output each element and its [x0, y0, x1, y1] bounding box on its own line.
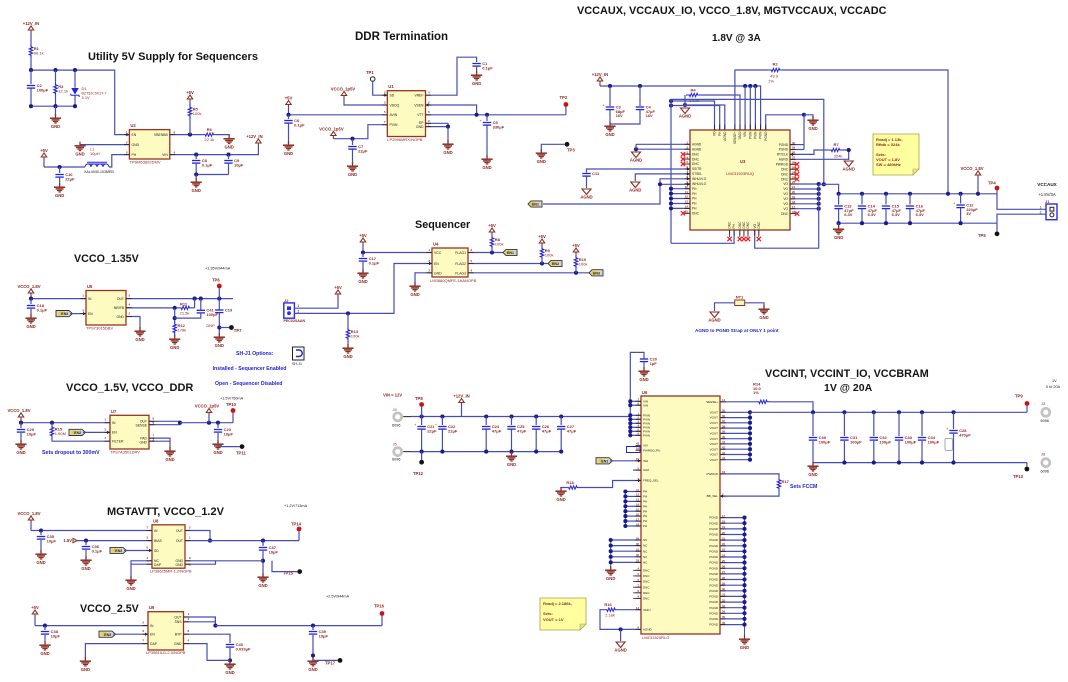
- section title MGTAVTT, VCCO_1.2V: [107, 506, 225, 518]
- no-connect stub U3 right row 5: [790, 168, 796, 170]
- junction: [420, 450, 424, 454]
- junction: [837, 192, 841, 196]
- svg-text:TP10: TP10: [226, 402, 237, 407]
- svg-text:SD: SD: [390, 94, 395, 98]
- wire: [189, 119, 191, 135]
- wire 1V output rail: [750, 411, 1027, 413]
- no-connect X: [681, 162, 685, 166]
- wire to C28: [953, 412, 955, 429]
- wire PH pin: [625, 510, 641, 512]
- svg-text:NT1: NT1: [736, 295, 744, 300]
- wire C33 down: [898, 441, 900, 463]
- wire R4 to VADJ: [701, 95, 740, 130]
- wire R6 to gnd: [216, 135, 229, 138]
- svg-text:VCCAUX, VCCAUX_IO, VCCO_1.8V,: VCCAUX, VCCAUX_IO, VCCO_1.8V, MGTVCCAUX,…: [577, 5, 887, 17]
- svg-text:SNS: SNS: [175, 620, 183, 624]
- svg-text:U7: U7: [111, 409, 117, 414]
- junction: [959, 221, 963, 225]
- svg-text:DNC: DNC: [643, 574, 650, 578]
- wire TP8 stub: [421, 407, 423, 417]
- wire U8 input: [31, 530, 152, 532]
- svg-text:VCCO_1.8V: VCCO_1.8V: [7, 408, 30, 413]
- svg-text:10μF: 10μF: [47, 538, 57, 543]
- junction: [261, 539, 265, 543]
- svg-text:J2: J2: [284, 298, 289, 303]
- no-connect X: [795, 167, 799, 171]
- svg-text:GND: GND: [36, 560, 45, 565]
- wire NC pin: [611, 545, 641, 547]
- junction: [609, 549, 613, 553]
- resistor R8: [490, 236, 503, 248]
- wire: [639, 86, 641, 106]
- svg-text:1.50M: 1.50M: [55, 431, 66, 436]
- junction: [748, 416, 752, 420]
- stub DNC pin U6: [633, 575, 641, 577]
- no-connect stub U3 left pin 4: [684, 158, 690, 160]
- svg-text:PH: PH: [692, 197, 697, 201]
- svg-text:INHUVLO: INHUVLO: [692, 177, 707, 181]
- svg-text:MGTAVTT, VCCO_1.2V: MGTAVTT, VCCO_1.2V: [107, 506, 225, 518]
- wire VIN pin 7: [630, 434, 641, 436]
- wire VO pin row 8: [790, 183, 819, 185]
- wire: [228, 163, 230, 174]
- wire PGND pin: [720, 590, 745, 592]
- svg-text:DAP: DAP: [150, 642, 158, 646]
- wire to C25: [511, 417, 513, 426]
- wire to J1 pin2: [997, 214, 1046, 223]
- pin names U3 bottom: [728, 221, 761, 229]
- wire VIN pin 2: [630, 414, 641, 416]
- wire NC pin: [611, 550, 641, 552]
- svg-text:U6: U6: [642, 390, 648, 395]
- wire SENSE+ to rail: [770, 402, 813, 413]
- junction: [742, 572, 746, 576]
- resistor R15: [50, 426, 66, 437]
- wire J2 pin2 to EN: [294, 264, 432, 314]
- wire EN3 to U9: [113, 633, 148, 635]
- junction: [669, 103, 673, 107]
- junction: [872, 410, 876, 414]
- capacitor C16: [906, 203, 926, 217]
- wire to gnd sym: [838, 223, 840, 228]
- no-connect X: [757, 237, 761, 241]
- svg-text:100μF: 100μF: [850, 439, 862, 444]
- wire DAP: [131, 563, 152, 565]
- wire: [332, 137, 334, 140]
- wire PGND pin: [720, 539, 745, 541]
- ground GND top right of U3: [807, 116, 818, 131]
- junction: [742, 611, 746, 615]
- net tie NT1: [735, 295, 745, 306]
- wire PGND pin: [720, 618, 745, 620]
- junction: [628, 421, 632, 425]
- note yellow U3 settings: [873, 134, 919, 175]
- note dropout: [42, 450, 100, 456]
- svg-text:AGND: AGND: [843, 167, 855, 172]
- pin names U3 top: [713, 131, 768, 144]
- wire C21 down: [421, 430, 423, 452]
- no-connect X: [795, 162, 799, 166]
- svg-text:0 to 20A: 0 to 20A: [1046, 385, 1061, 389]
- wire VOUT pin: [720, 411, 750, 413]
- svg-text:PWRGD_PU: PWRGD_PU: [643, 448, 660, 452]
- junction: [440, 414, 444, 418]
- svg-text:GND: GND: [434, 271, 442, 275]
- wire PH pin: [625, 491, 641, 493]
- capacitor C18: [27, 303, 48, 312]
- wire AGND top pin: [685, 105, 725, 130]
- svg-text:VOUT: VOUT: [710, 416, 719, 420]
- svg-text:LP38625MR-1.2/NOPB: LP38625MR-1.2/NOPB: [150, 569, 192, 574]
- wire PGND pin30: [790, 144, 804, 146]
- junction: [623, 494, 627, 498]
- wire SS/TR to C11: [587, 169, 691, 173]
- svg-text:TP4: TP4: [988, 181, 996, 186]
- wire: [30, 57, 32, 70]
- junction: [73, 68, 77, 72]
- svg-text:+5V: +5V: [538, 234, 546, 239]
- wire AGND pin1: [636, 143, 690, 145]
- wire flag stub U6: [461, 405, 463, 417]
- svg-text:GND: GND: [215, 343, 224, 348]
- svg-text:10μF: 10μF: [234, 162, 244, 167]
- pin stubs all ICs: [81, 95, 796, 643]
- capacitor C40: [226, 642, 251, 651]
- wire: [609, 86, 611, 106]
- ground GND below C18: [25, 314, 36, 329]
- svg-text:VOUT: VOUT: [710, 453, 719, 457]
- wire: [43, 160, 45, 168]
- junction: [29, 297, 33, 301]
- wire to C15: [885, 194, 887, 205]
- wire TP12 stub: [421, 452, 423, 460]
- svg-text:TP6: TP6: [212, 278, 220, 283]
- svg-text:16V: 16V: [616, 113, 623, 118]
- IC U4: [430, 242, 477, 284]
- junction: [194, 153, 198, 157]
- wire VIN bus to C20: [630, 352, 644, 401]
- junction: [842, 461, 846, 465]
- ground GND below C19: [214, 333, 225, 348]
- ground GND at PGND pins: [739, 635, 750, 650]
- wire: [44, 166, 85, 168]
- junction: [361, 250, 365, 254]
- junction: [658, 182, 662, 186]
- svg-text:EN1: EN1: [532, 203, 539, 207]
- svg-text:PGND: PGND: [709, 617, 719, 621]
- svg-text:GND: GND: [308, 667, 317, 672]
- label J4: [393, 407, 398, 412]
- wire TP5 stub: [996, 223, 998, 231]
- junction: [634, 147, 638, 151]
- wire PGND pin: [720, 528, 745, 530]
- svg-text:10μF: 10μF: [319, 633, 329, 638]
- junction: [484, 414, 488, 418]
- wire PGND pin: [720, 584, 745, 586]
- wire: [34, 617, 36, 626]
- wire: [288, 124, 290, 145]
- capacitor C39: [309, 629, 329, 638]
- stub DNC pin U6: [633, 592, 641, 594]
- power flag +5V at R8: [488, 223, 496, 235]
- junction: [817, 192, 821, 196]
- ground GND below C10: [54, 183, 65, 198]
- no-connect stub U3 right row 6: [790, 173, 796, 175]
- label +1.5V/750mA: [220, 397, 244, 401]
- wire VIN bus: [629, 401, 631, 435]
- svg-text:SENSE+: SENSE+: [733, 131, 737, 144]
- junction: [53, 68, 57, 72]
- wire: [575, 255, 577, 257]
- junction: [847, 148, 851, 152]
- wire vo link: [819, 183, 824, 185]
- svg-text:GND: GND: [116, 315, 124, 319]
- junction: [509, 414, 513, 418]
- svg-text:6.3V: 6.3V: [844, 212, 853, 217]
- svg-text:R17: R17: [782, 479, 790, 484]
- testpoint TP2: [560, 95, 569, 107]
- svg-text:47μF: 47μF: [517, 428, 527, 433]
- wire to TP7: [219, 327, 229, 329]
- wire VIN pin 1: [630, 404, 641, 406]
- svg-text:VTT: VTT: [417, 113, 423, 117]
- svg-text:EN: EN: [88, 312, 93, 316]
- ground GND below C36: [80, 556, 91, 571]
- no-connect stub U3 bottom: [739, 230, 741, 237]
- junction: [311, 653, 315, 657]
- wire input rail U6: [411, 416, 631, 418]
- wire: [288, 107, 290, 115]
- svg-text:VO: VO: [783, 192, 788, 196]
- stub DNC pin U6: [633, 586, 641, 588]
- svg-text:+1.35V/944mA: +1.35V/944mA: [205, 267, 231, 271]
- wire VO pin row 9: [790, 188, 819, 190]
- wire U9 input: [35, 625, 148, 627]
- wire PGND pin: [720, 624, 745, 626]
- ground GND below C3: [604, 122, 615, 137]
- label 6096 J4: [392, 424, 400, 428]
- junction: [959, 192, 963, 196]
- wire J5 stub: [403, 451, 411, 453]
- power flag VCCO_1.8V at U5: [17, 284, 40, 296]
- svg-text:1V: 1V: [1052, 379, 1057, 383]
- connector J6: [1042, 459, 1050, 467]
- wire: [30, 309, 32, 317]
- wire C19 down: [218, 313, 220, 336]
- svg-text:GND: GND: [139, 440, 147, 444]
- svg-text:178k: 178k: [178, 328, 187, 333]
- junction: [884, 192, 888, 196]
- svg-text:VCCO_1p5V: VCCO_1p5V: [331, 86, 356, 91]
- net tag EN2: [548, 260, 562, 266]
- wire: [352, 139, 354, 145]
- wire PH pin: [625, 525, 641, 527]
- junction: [748, 442, 752, 446]
- capacitor C31: [840, 435, 862, 444]
- pin labels U7: [104, 417, 154, 445]
- wire TP16 stub: [381, 616, 383, 626]
- wire: [55, 106, 57, 117]
- svg-text:PWRGD: PWRGD: [776, 163, 789, 167]
- wire: [476, 66, 478, 74]
- svg-text:PH: PH: [132, 153, 137, 157]
- ground GND below C35: [35, 550, 46, 565]
- junction: [822, 182, 826, 186]
- svg-text:GND: GND: [556, 497, 565, 502]
- svg-text:DAP: DAP: [154, 563, 162, 567]
- pin names U6 left: [636, 398, 660, 632]
- svg-text:C11: C11: [592, 171, 600, 176]
- wire: [74, 70, 76, 87]
- ground GND below C40: [224, 660, 235, 675]
- wire PH pin: [625, 515, 641, 517]
- svg-text:PGND: PGND: [709, 606, 719, 610]
- wire: [55, 70, 57, 83]
- ground GND below C38: [39, 641, 50, 656]
- svg-text:100μF: 100μF: [928, 439, 940, 444]
- no-connect X: [746, 237, 750, 241]
- junction: [559, 450, 563, 454]
- wire PGND pin: [720, 567, 745, 569]
- wire VOUT pin: [720, 454, 750, 456]
- junction: [540, 261, 544, 265]
- IC U9: [146, 605, 186, 655]
- power flag VCCO_1p5V out: [195, 403, 220, 415]
- svg-text:FLAG1: FLAG1: [455, 251, 466, 255]
- svg-text:VCCO_2.5V: VCCO_2.5V: [80, 603, 140, 615]
- wire PGND pin: [720, 579, 745, 581]
- junction: [623, 489, 627, 493]
- svg-text:BIAS: BIAS: [154, 539, 162, 543]
- svg-text:VIV: VIV: [643, 444, 648, 448]
- wire to C27: [560, 417, 562, 426]
- wire VOUT pin: [720, 422, 750, 424]
- capacitor C10: [55, 172, 75, 181]
- junction: [207, 421, 211, 425]
- pin labels U5: [82, 294, 130, 319]
- svg-text:100k: 100k: [495, 241, 504, 246]
- junction: [623, 509, 627, 513]
- svg-text:U2: U2: [130, 123, 136, 128]
- svg-text:VOUT: VOUT: [710, 410, 719, 414]
- wire VO pin row 10: [790, 193, 819, 195]
- junction: [485, 113, 489, 117]
- svg-text:GND: GND: [759, 315, 768, 320]
- label +1.8V/3A: [1038, 192, 1056, 197]
- power flag +12V_IN at U3: [592, 72, 608, 84]
- junction: [817, 202, 821, 206]
- junction: [742, 600, 746, 604]
- svg-text:STSEL: STSEL: [692, 172, 702, 176]
- wire R7 to agnd: [843, 150, 849, 160]
- wire VO pin row 13: [790, 208, 819, 210]
- junction: [39, 528, 43, 532]
- svg-text:VBENBB: VBENBB: [154, 133, 168, 137]
- junction: [976, 192, 980, 196]
- junction: [559, 414, 563, 418]
- wire VOUT pin: [720, 448, 750, 450]
- AGND ground at U6: [614, 642, 626, 653]
- wire R16 to AGND pin: [600, 610, 641, 630]
- junction: [748, 426, 752, 430]
- wire PGND pin: [720, 601, 745, 603]
- label 6096 J3: [1041, 419, 1049, 423]
- wire: [288, 115, 290, 119]
- junction: [860, 221, 864, 225]
- junction: [475, 113, 479, 117]
- svg-text:EN2: EN2: [115, 549, 122, 553]
- ground GND below R12: [169, 335, 180, 350]
- wire PH pin10: [671, 188, 690, 190]
- wire GND pin U1: [426, 126, 449, 128]
- svg-text:VIN: VIN: [643, 403, 648, 407]
- wire TP10 stub: [232, 413, 234, 423]
- ground GND below C5: [481, 155, 492, 170]
- wire PH pin: [625, 495, 641, 497]
- svg-text:SD: SD: [154, 549, 159, 553]
- wire TP14 stub: [298, 531, 300, 540]
- svg-text:PVIN: PVIN: [643, 433, 650, 437]
- label 6096 J6: [1041, 470, 1049, 474]
- svg-text:+5V: +5V: [359, 233, 367, 238]
- ground GND at U2: [74, 142, 85, 157]
- junction: [420, 414, 424, 418]
- svg-text:AGND: AGND: [692, 143, 702, 147]
- wire: [609, 110, 611, 124]
- svg-text:PH: PH: [643, 504, 647, 508]
- junction: [817, 197, 821, 201]
- wire gnd stub out: [812, 463, 814, 465]
- section title DDR Termination: [355, 31, 448, 43]
- svg-text:PGND: PGND: [709, 527, 719, 531]
- svg-text:GND: GND: [606, 576, 615, 581]
- svg-text:10μF: 10μF: [224, 431, 234, 436]
- resistor R4: [686, 88, 701, 103]
- wire: [217, 423, 219, 428]
- connector J2: [284, 298, 306, 323]
- wire PGND pin29: [790, 149, 804, 151]
- wire PH pin14: [671, 207, 690, 209]
- svg-text:SENSE+: SENSE+: [706, 400, 718, 404]
- svg-text:GND: GND: [213, 450, 222, 455]
- junction: [173, 306, 177, 310]
- wire PVIN top pin b: [754, 86, 756, 130]
- wire C30 down: [812, 441, 814, 463]
- wire C32 down: [873, 441, 875, 463]
- wire to C31: [843, 412, 845, 436]
- wire: [30, 33, 32, 46]
- ground GND at TP3: [536, 149, 547, 164]
- wire to C13: [838, 194, 840, 205]
- AGND ground pins 1-2: [630, 152, 642, 163]
- junction: [748, 410, 752, 414]
- svg-text:GND: GND: [81, 566, 90, 571]
- wire AGND pin27: [790, 158, 849, 160]
- svg-text:EN: EN: [434, 262, 439, 266]
- wire FLAG2: [468, 263, 548, 265]
- wire C41 to FB: [175, 313, 201, 318]
- capacitor C4: [636, 104, 656, 118]
- wire: [491, 248, 493, 253]
- svg-text:GND: GND: [472, 81, 481, 86]
- junction: [628, 413, 632, 417]
- svg-text:PH: PH: [643, 509, 647, 513]
- wire C40 down: [229, 648, 231, 663]
- svg-text:10μH: 10μH: [90, 151, 100, 156]
- wire gnd bus: [31, 105, 75, 107]
- svg-text:DNC: DNC: [643, 568, 650, 572]
- svg-text:FLAG2: FLAG2: [455, 262, 466, 266]
